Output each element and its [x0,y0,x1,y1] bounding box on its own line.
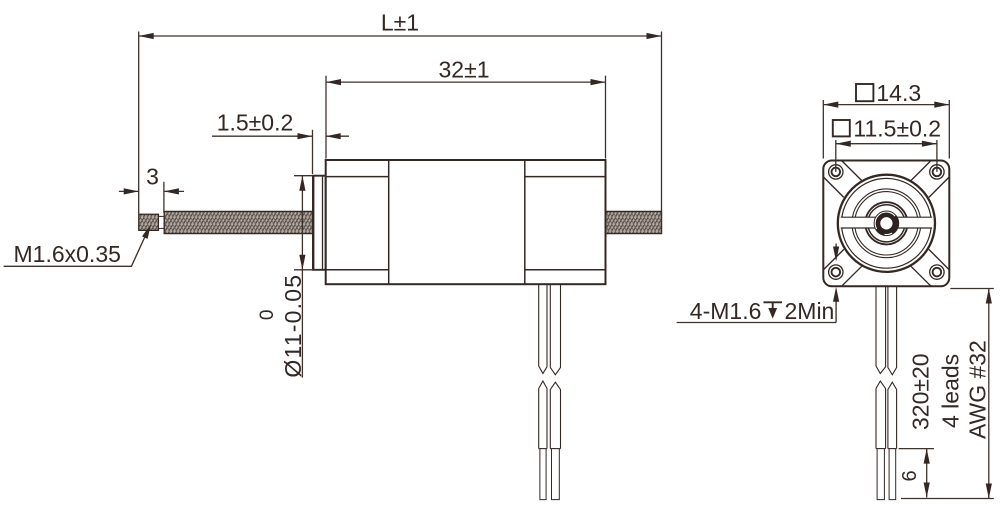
dimension 320±20 arrowheads [986,289,992,304]
corner pad diagonal top-left [823,161,862,198]
dimension ⌀11 arrowheads [299,176,305,191]
dimension □14.3 extension lines [823,100,949,159]
dimension L±1 line [139,35,662,37]
svg-text:M1.6x0.35: M1.6x0.35 [14,241,121,267]
dimension □14.3 line [823,104,949,106]
label 4-M1.6 leader up arrowhead [833,287,839,302]
dimension ⌀11 vertical line [301,176,303,378]
dimension 6 extension tick [899,448,934,450]
middle ring inner [855,192,918,255]
svg-text:3: 3 [146,164,159,190]
body divider line front [388,160,390,284]
mounting hole bottom-right [930,265,944,279]
dimension □11.5±0.2 line [836,143,937,145]
svg-text:AWG #32: AWG #32 [965,340,991,439]
slot band across face [841,217,932,228]
motor body outline (side view) [326,160,606,284]
lead screw left section [164,211,312,233]
svg-text:320±20: 320±20 [908,353,934,430]
label M1.6x0.35 arrowhead [142,224,151,239]
dimension 3 arrowheads [124,188,139,194]
dimension 320±20 extension tick top [950,288,994,290]
shaft bore [879,216,893,230]
svg-text:Ø11-0.05: Ø11-0.05 [280,274,306,378]
end cap inset line rear top [525,176,606,178]
dimension 32±1 line [326,81,606,83]
dimension 6 rotated text [899,470,921,481]
dimension □14.3 square symbol [856,84,873,101]
dimension 6 arrowheads [924,449,930,464]
lead screw right section [606,211,662,233]
motor can outer ring [838,175,935,272]
corner pad diagonal bottom-left [823,249,862,286]
hole callout upper line [835,244,837,254]
side view lead wires upper segment [539,285,561,375]
pilot boss plate (side view) [313,176,326,270]
depth symbol [764,302,783,318]
svg-text:4 leads: 4 leads [938,354,964,428]
dimension 1.5±0.2 extension line [312,130,314,174]
wire spec rotated text 320±20 [908,353,934,430]
dimension □11.5±0.2 extension lines [836,140,937,172]
dimension □11.5±0.2 arrowheads [836,141,851,147]
corner pad diagonal top-right [910,161,949,198]
end cap inset line rear bottom [525,269,606,271]
shaft thread texture arcs [877,216,898,234]
wire spec rotated text AWG #32 [965,340,991,439]
front view lead wires lower segment [876,381,897,449]
svg-text:0: 0 [257,310,278,321]
dimension □14.3 arrowheads [823,102,838,108]
svg-text:1.5±0.2: 1.5±0.2 [217,110,294,136]
svg-text:14.3: 14.3 [876,80,921,106]
dimension 1.5±0.2 leader lines [212,135,349,137]
dimension 1.5±0.2 arrowheads [298,133,313,139]
front view lead wires upper segment [876,287,897,375]
body divider line rear [524,160,526,284]
end cap inset line front bottom [326,269,389,271]
front view bare wire ends [877,449,896,500]
svg-text:L±1: L±1 [381,10,419,36]
end cap inset line front top [326,176,389,178]
dimension L±1 extension line left [138,32,140,214]
dimension 32±1 arrowheads [326,79,341,85]
dimension ⌀11 extension ticks [294,176,314,270]
label M1.6x0.35 leader [4,236,146,267]
dimension 32±1 extension line right [605,76,607,159]
dimension 3 leader lines [119,190,184,192]
dimension L±1 extension line right [661,32,663,234]
svg-text:11.5±0.2: 11.5±0.2 [853,116,941,142]
label 4-M1.6 leader underline [677,322,837,324]
mounting hole bottom-left [829,265,843,279]
svg-text:32±1: 32±1 [439,57,490,83]
dimension 320±20 vertical line [988,289,990,499]
side view lead wires lower segment [539,381,561,449]
dimension ⌀11-0.05 rotated label [257,274,306,378]
label 4-M1.6 leader vertical line [835,295,837,323]
corner pad diagonal bottom-right [910,249,949,286]
motor can inner lip ring [842,178,932,268]
shaft thread dark annulus [878,215,896,233]
lead screw tip thread M1.6 [139,214,159,230]
dimension 6 vertical line [926,449,928,498]
wire spec rotated text 4 leads [938,354,964,428]
svg-text:6: 6 [899,470,921,481]
mounting hole top-left [829,165,843,179]
dimension 32±1 extension line left [325,76,327,159]
hole callout down arrowhead [833,247,839,262]
front flange square [823,161,949,287]
svg-text:2Min: 2Min [785,298,835,324]
dimension 320±20 / 6 extension tick bottom [901,498,994,500]
boss ring outer [865,202,907,244]
dimension L±1 arrowheads [139,33,154,39]
mounting hole top-right [930,165,944,179]
svg-text:4-M1.6: 4-M1.6 [690,298,762,324]
boss ring inner [868,205,905,242]
dimension 3 extension line [163,182,165,213]
screw neck (undercut groove) [159,216,165,228]
shaft thread outline circle [874,211,899,236]
side view bare wire ends [540,449,559,500]
middle ring outer [852,189,921,258]
dimension □11.5±0.2 square symbol [833,120,850,136]
